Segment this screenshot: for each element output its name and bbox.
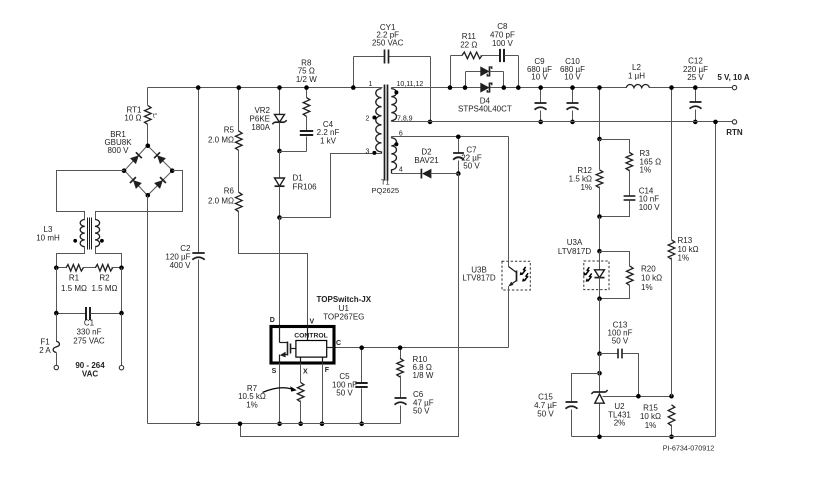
svg-text:STPS40L40CT: STPS40L40CT	[458, 105, 512, 114]
wire BR1 right to L3	[96, 171, 183, 220]
bridge rectifier BR1	[104, 130, 174, 198]
capacitor C13	[597, 320, 638, 396]
wire RTN leg	[713, 120, 718, 437]
resistor R11	[448, 32, 500, 90]
resistor R10	[397, 345, 434, 379]
svg-text:10 kΩ: 10 kΩ	[678, 245, 699, 254]
svg-text:V: V	[309, 319, 314, 326]
svg-text:50 V: 50 V	[612, 337, 629, 346]
wire source rail	[148, 422, 401, 427]
svg-text:X: X	[303, 369, 308, 376]
svg-text:1.5 MΩ: 1.5 MΩ	[92, 284, 118, 293]
svg-text:1%: 1%	[640, 166, 652, 175]
resistor R2	[92, 265, 122, 293]
svg-text:2%: 2%	[614, 419, 626, 428]
svg-text:C1: C1	[84, 319, 95, 328]
svg-text:1%: 1%	[580, 183, 592, 192]
svg-text:LTV817D: LTV817D	[462, 274, 495, 283]
node R2 row right	[119, 266, 124, 271]
svg-text:50 V: 50 V	[336, 389, 353, 398]
wire V internal	[307, 327, 309, 341]
svg-text:3: 3	[366, 148, 370, 155]
svg-text:2 A: 2 A	[39, 346, 51, 355]
wire left leg	[56, 268, 58, 314]
wire bias positive	[392, 136, 509, 138]
svg-text:800 V: 800 V	[108, 146, 130, 155]
diode D4 lower	[480, 83, 492, 93]
svg-text:VAC: VAC	[82, 369, 99, 378]
svg-text:CONTROL: CONTROL	[294, 332, 328, 339]
capacitor C6	[395, 376, 434, 424]
svg-text:10 V: 10 V	[531, 73, 548, 82]
node feedback top	[597, 137, 602, 142]
label T1	[372, 178, 400, 196]
svg-text:R6: R6	[224, 186, 235, 195]
svg-text:PI-6734-070912: PI-6734-070912	[663, 444, 715, 453]
svg-text:LTV817D: LTV817D	[558, 247, 591, 256]
wire L3 left to R1	[57, 247, 85, 268]
svg-text:R20: R20	[641, 264, 656, 273]
resistor R12	[569, 140, 603, 217]
node divider mid	[597, 214, 602, 251]
diode D2	[392, 148, 459, 179]
svg-text:D1: D1	[293, 174, 304, 183]
svg-text:R15: R15	[643, 403, 658, 412]
svg-text:1: 1	[369, 81, 373, 88]
svg-text:U2: U2	[614, 402, 625, 411]
svg-text:U3A: U3A	[567, 238, 583, 247]
wire X internal	[300, 358, 302, 364]
U1 pin labels	[270, 317, 341, 376]
svg-text:BAV21: BAV21	[414, 156, 439, 165]
terminal AC L	[54, 365, 58, 369]
capacitor C12	[683, 57, 708, 125]
transformer T1 secondary	[391, 81, 423, 122]
opto LED U3A	[558, 238, 609, 299]
resistor R1	[57, 265, 96, 293]
wire 5V to feedback	[597, 85, 602, 139]
resistor R15	[640, 403, 675, 439]
svg-text:10 kΩ: 10 kΩ	[640, 412, 661, 421]
terminal 5V output	[717, 73, 750, 90]
svg-text:5 V, 10 A: 5 V, 10 A	[717, 73, 750, 82]
svg-text:275 VAC: 275 VAC	[73, 337, 105, 346]
capacitor C1	[54, 307, 124, 346]
diode D4 upper	[458, 66, 512, 113]
wire L3 right to R2	[96, 247, 122, 268]
capacitor CY1	[351, 23, 432, 124]
capacitor C14	[600, 170, 661, 217]
wire RTN	[392, 121, 733, 123]
svg-text:1/8 W: 1/8 W	[413, 371, 434, 380]
svg-text:1/2 W: 1/2 W	[296, 75, 317, 84]
svg-text:TOP267EG: TOP267EG	[323, 312, 364, 321]
svg-text:100 V: 100 V	[639, 203, 661, 212]
svg-text:1%: 1%	[641, 283, 653, 292]
svg-text:10,11,12: 10,11,12	[397, 81, 424, 88]
svg-text:t°: t°	[153, 111, 158, 119]
svg-text:1%: 1%	[645, 421, 657, 430]
wire BR1 bottom to return rail	[147, 196, 149, 424]
wire secondary return rail	[572, 435, 716, 440]
svg-text:TOPSwitch-JX: TOPSwitch-JX	[317, 295, 372, 304]
svg-text:400 V: 400 V	[170, 261, 192, 270]
capacitor C9	[527, 57, 552, 124]
svg-text:180A: 180A	[251, 123, 270, 132]
wire bias return	[241, 174, 459, 437]
svg-text:RTN: RTN	[726, 128, 743, 137]
svg-text:1%: 1%	[678, 254, 690, 263]
resistor R6	[208, 150, 242, 212]
svg-text:10 V: 10 V	[564, 73, 581, 82]
svg-text:10 mH: 10 mH	[36, 234, 60, 243]
wire BR1 left to L3	[57, 171, 125, 220]
opto transistor U3B	[462, 137, 530, 348]
svg-text:C: C	[336, 340, 341, 347]
transformer T1 bias winding	[391, 131, 403, 174]
transformer T1 primary	[366, 81, 382, 155]
node C15 branch	[597, 354, 602, 392]
node opto top	[597, 249, 602, 254]
svg-text:2.0 MΩ: 2.0 MΩ	[208, 136, 234, 145]
svg-text:1 kV: 1 kV	[320, 136, 337, 145]
resistor R7	[238, 364, 304, 427]
resistor R8	[296, 58, 317, 116]
wire secondary positive	[392, 87, 733, 89]
inductor L3	[36, 218, 104, 250]
svg-text:50 V: 50 V	[537, 410, 554, 419]
resistor R20	[600, 252, 663, 299]
svg-text:2: 2	[366, 115, 370, 122]
node opto bottom	[597, 296, 602, 353]
node VR2-C4	[277, 149, 306, 154]
U1 mosfet	[280, 327, 296, 364]
wire S pin	[277, 364, 282, 427]
zener VR2	[250, 85, 287, 151]
resistor R5	[208, 85, 242, 150]
svg-text:D: D	[270, 317, 275, 324]
svg-text:4: 4	[399, 167, 403, 174]
svg-text:R2: R2	[99, 274, 110, 283]
resistor R3	[600, 140, 662, 175]
wire F internal	[322, 358, 324, 364]
wire right leg	[121, 268, 123, 314]
svg-text:F: F	[325, 367, 330, 374]
node drain junction	[277, 215, 282, 220]
terminal RTN	[726, 120, 743, 137]
resistor R13	[668, 85, 698, 396]
svg-text:1 µH: 1 µH	[628, 71, 645, 80]
svg-text:S: S	[272, 368, 277, 375]
label PI number	[663, 444, 715, 453]
svg-text:10 Ω: 10 Ω	[124, 114, 141, 123]
terminal AC N	[119, 366, 123, 370]
label 90-264 VAC	[75, 361, 105, 378]
svg-text:PQ2625: PQ2625	[372, 186, 400, 195]
capacitor C2	[165, 85, 204, 426]
capacitor C10	[560, 57, 585, 124]
fuse F1	[39, 314, 59, 366]
inductor L2	[626, 63, 649, 87]
svg-text:R5: R5	[224, 126, 235, 135]
svg-text:R1: R1	[69, 274, 80, 283]
svg-text:1%: 1%	[246, 400, 258, 409]
svg-text:25 V: 25 V	[687, 73, 704, 82]
TOPSwitch U1 body	[271, 295, 372, 363]
svg-text:2.0 MΩ: 2.0 MΩ	[208, 196, 234, 205]
wire C internal	[327, 347, 335, 349]
wire ref row	[603, 394, 674, 399]
node R1 row left	[54, 266, 59, 271]
capacitor C15	[534, 374, 599, 437]
wire AC input top rail	[148, 87, 383, 89]
svg-text:250 VAC: 250 VAC	[372, 38, 404, 47]
svg-text:330 nF: 330 nF	[77, 328, 102, 337]
shunt regulator U2 TL431	[591, 390, 631, 437]
capacitor C4	[300, 116, 340, 152]
wire F pin	[320, 364, 325, 427]
capacitor C8	[490, 22, 521, 90]
svg-text:100 V: 100 V	[492, 39, 514, 48]
diode D1	[275, 152, 318, 218]
wire right leg to terminal	[121, 314, 123, 366]
capacitor C5	[332, 345, 368, 426]
transformer T1 core	[385, 85, 388, 181]
wire pin3 to drain	[280, 154, 382, 218]
svg-text:FR106: FR106	[293, 183, 318, 192]
capacitor C7	[453, 135, 482, 176]
svg-text:50 V: 50 V	[463, 162, 480, 171]
wire C pin line	[335, 347, 509, 349]
svg-text:10 kΩ: 10 kΩ	[641, 274, 662, 283]
svg-text:R13: R13	[678, 236, 693, 245]
svg-text:50 V: 50 V	[413, 407, 430, 416]
wire R6 to V pin	[239, 211, 308, 327]
wire drain to D pin	[279, 218, 281, 327]
svg-text:22 Ω: 22 Ω	[460, 40, 477, 49]
svg-text:1.5 MΩ: 1.5 MΩ	[61, 284, 87, 293]
thermistor RT1	[124, 88, 157, 146]
